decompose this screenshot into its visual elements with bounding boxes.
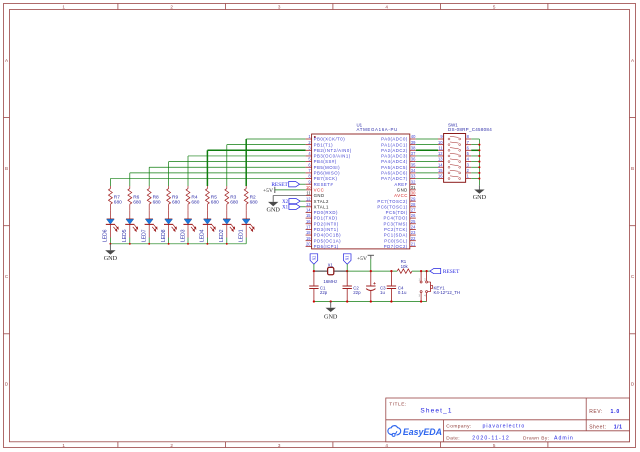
svg-text:PB6(MISO): PB6(MISO) — [314, 171, 341, 176]
wire PA6 to SW1 — [416, 172, 438, 174]
pin 4 PB3(OC0/AIN1) — [306, 151, 351, 159]
IC U1 ATMEGA16A-PU body — [312, 122, 410, 248]
svg-text:Company:: Company: — [446, 423, 471, 429]
pin 31 GND — [397, 185, 416, 193]
junction on rail col 6 — [206, 243, 208, 245]
SW1 element row 1 pins 9/8 — [438, 134, 471, 140]
net flag X1 (pin 13 XTAL1) — [282, 204, 305, 210]
resistor R3 680 — [225, 186, 239, 210]
svg-text:RESET#: RESET# — [314, 182, 334, 187]
svg-text:Sheet:: Sheet: — [589, 425, 606, 431]
svg-text:PB2(INT2/AIN0): PB2(INT2/AIN0) — [314, 148, 352, 153]
junction on rail col 4 — [168, 243, 170, 245]
wire LED ground rail — [110, 243, 246, 245]
junction C4 top — [390, 270, 392, 272]
pin 28 PC6(TOSC1) — [377, 202, 416, 210]
svg-text:25: 25 — [411, 219, 416, 224]
svg-text:13: 13 — [306, 202, 311, 207]
svg-text:14: 14 — [438, 162, 443, 167]
svg-text:27: 27 — [411, 208, 416, 213]
svg-text:12: 12 — [306, 196, 311, 201]
push button KEY1 K4-12*12_TH — [418, 271, 460, 301]
svg-text:34: 34 — [411, 168, 416, 173]
pin 12 XTAL2 — [306, 196, 329, 204]
svg-text:Sheet_1: Sheet_1 — [420, 408, 452, 415]
LED LED2 — [219, 210, 235, 242]
svg-text:22p: 22p — [320, 290, 328, 295]
ground (SW1 rail) — [473, 185, 487, 201]
svg-text:X1: X1 — [282, 206, 288, 211]
pin 6 PB5(MOSI) — [306, 162, 341, 170]
svg-text:26: 26 — [411, 213, 416, 218]
svg-text:PA5(ADC5): PA5(ADC5) — [381, 165, 408, 170]
svg-text:PC1(SDA): PC1(SDA) — [384, 233, 408, 238]
pin 40 PA0(ADC0) — [381, 134, 416, 142]
svg-text:21: 21 — [411, 241, 416, 246]
svg-text:PB7(SCK): PB7(SCK) — [314, 176, 338, 181]
svg-text:1: 1 — [62, 5, 65, 10]
wire SW1 row 3 to gnd rail — [471, 149, 479, 151]
wire bottom gnd rail (osc) — [314, 301, 427, 303]
svg-text:38: 38 — [411, 145, 416, 150]
svg-text:36: 36 — [411, 157, 416, 162]
svg-text:1.0: 1.0 — [611, 409, 621, 415]
capacitor C1 22p — [309, 271, 328, 301]
wire PA1 to SW1 — [416, 144, 438, 146]
SW1 element row 2 pins 10/7 — [438, 140, 471, 146]
pin 17 PD3(INT1) — [306, 225, 339, 233]
switch SW1 DS-08RP_C458084 body — [444, 122, 493, 182]
company row — [446, 423, 525, 429]
svg-text:+5V: +5V — [263, 188, 273, 194]
svg-text:PC3(TMS): PC3(TMS) — [384, 221, 408, 226]
junction on rail col 7 — [226, 243, 228, 245]
pin 37 PA3(ADC3) — [381, 151, 416, 159]
svg-text:18: 18 — [306, 230, 311, 235]
power +5V (osc) — [357, 255, 374, 271]
svg-text:EasyEDA: EasyEDA — [403, 427, 442, 437]
svg-text:1u: 1u — [380, 290, 385, 295]
SW1 element row 4 pins 12/5 — [438, 151, 471, 157]
pin 1 PB0(XCK/T0) — [306, 134, 346, 142]
wire net R2 to PB0 — [246, 139, 305, 186]
svg-text:LED1: LED1 — [239, 229, 245, 242]
svg-text:PA2(ADC2): PA2(ADC2) — [381, 148, 408, 153]
junction on rail col 3 — [148, 243, 150, 245]
svg-text:680: 680 — [191, 200, 199, 206]
svg-text:XTAL1: XTAL1 — [314, 204, 329, 209]
svg-text:LED7: LED7 — [142, 229, 148, 242]
svg-text:+5V: +5V — [357, 256, 367, 262]
junction on rail col 2 — [129, 243, 131, 245]
svg-text:PB1(T1): PB1(T1) — [314, 142, 334, 147]
svg-text:TITLE:: TITLE: — [389, 401, 407, 407]
svg-text:LED5: LED5 — [122, 229, 128, 242]
LED LED1 — [239, 210, 255, 242]
svg-text:35: 35 — [411, 162, 416, 167]
svg-text:3: 3 — [278, 443, 281, 448]
svg-text:X2: X2 — [312, 256, 316, 261]
svg-text:23: 23 — [411, 230, 416, 235]
svg-text:10: 10 — [306, 185, 311, 190]
junction bottom rail — [330, 300, 332, 302]
resistor R4 680 — [186, 186, 200, 210]
junction bottom rail — [420, 300, 422, 302]
svg-text:13: 13 — [438, 157, 443, 162]
LED LED8 — [161, 210, 177, 242]
LED LED3 — [180, 210, 196, 242]
pin 22 PC0(SCL) — [384, 236, 416, 244]
junction SW rail row 7 — [478, 172, 480, 174]
svg-text:PB5(MOSI): PB5(MOSI) — [314, 165, 341, 170]
svg-text:12: 12 — [438, 151, 443, 156]
junction bottom rail — [313, 300, 315, 302]
svg-text:PB0(XCK/T0): PB0(XCK/T0) — [314, 137, 346, 142]
junction SW rail row 3 — [478, 149, 480, 151]
svg-text:GND: GND — [104, 255, 118, 262]
svg-text:680: 680 — [211, 200, 219, 206]
svg-text:ATMEGA16A-PU: ATMEGA16A-PU — [357, 127, 398, 132]
resistor R9 680 — [167, 186, 181, 210]
svg-text:PC6(TOSC1): PC6(TOSC1) — [377, 204, 408, 209]
svg-text:PD7(OC2): PD7(OC2) — [384, 244, 408, 249]
svg-text:11: 11 — [438, 145, 443, 150]
pin 3 PB2(INT2/AIN0) — [306, 145, 352, 153]
LED LED5 — [122, 210, 138, 242]
svg-text:Admin: Admin — [554, 435, 574, 441]
wire LED5 to gnd rail — [129, 238, 131, 244]
svg-text:RESET: RESET — [271, 182, 288, 188]
svg-text:X1: X1 — [328, 263, 334, 268]
svg-text:X2: X2 — [282, 200, 288, 205]
pin 10 VCC — [306, 185, 325, 193]
wire SW1 row 5 to gnd rail — [471, 161, 479, 163]
pin 24 PC2(TCK) — [384, 225, 416, 233]
pin 26 PC4(TDO) — [384, 213, 417, 221]
crystal X1 16MHz — [314, 263, 347, 284]
pin 15 PD1(TXD) — [306, 213, 338, 221]
wire PA5 to SW1 — [416, 166, 438, 168]
svg-text:PA0(ADC0): PA0(ADC0) — [381, 137, 408, 142]
wire SW1 gnd rail — [478, 139, 480, 185]
svg-text:14: 14 — [306, 208, 311, 213]
EasyEDA logo — [388, 426, 442, 438]
svg-text:PA3(ADC3): PA3(ADC3) — [381, 154, 408, 159]
wire PA0 to SW1 — [416, 138, 438, 140]
svg-text:2: 2 — [170, 5, 173, 10]
junction bottom rail — [390, 300, 392, 302]
wire PA4 to SW1 — [416, 161, 438, 163]
svg-text:29: 29 — [411, 196, 416, 201]
svg-text:4: 4 — [385, 443, 388, 448]
svg-text:2020-11-12: 2020-11-12 — [472, 435, 510, 441]
net flag X1 (crystal right) — [343, 254, 351, 271]
svg-text:GND: GND — [266, 206, 280, 213]
pin 9 RESET# — [306, 179, 334, 187]
svg-text:680: 680 — [114, 200, 122, 206]
svg-text:37: 37 — [411, 151, 416, 156]
net flag X2 (pin 12 XTAL2) — [282, 199, 305, 205]
svg-text:GND: GND — [473, 194, 487, 201]
svg-text:PA7(ADC7): PA7(ADC7) — [381, 176, 408, 181]
svg-text:GND: GND — [314, 193, 325, 198]
wire LED8 to gnd rail — [168, 238, 170, 244]
svg-text:PA4(ADC4): PA4(ADC4) — [381, 159, 408, 164]
svg-text:10: 10 — [438, 140, 443, 145]
junction SW rail row 6 — [478, 166, 480, 168]
svg-text:22p: 22p — [353, 290, 361, 295]
svg-text:5: 5 — [493, 443, 496, 448]
net flag X2 (crystal left) — [310, 254, 318, 271]
wire net R4 to PB3 — [188, 156, 306, 186]
junction SW rail row 8 — [478, 178, 480, 180]
pin 23 PC1(SDA) — [384, 230, 416, 238]
svg-text:GND: GND — [397, 187, 408, 192]
junction bottom rail — [346, 300, 348, 302]
pin 21 PD7(OC2) — [384, 241, 416, 249]
pin 38 PA2(ADC2) — [381, 145, 416, 153]
pin 30 AVCC — [394, 191, 416, 199]
junction crystal left — [313, 270, 315, 272]
svg-text:Date:: Date: — [446, 435, 460, 441]
svg-text:PC7(TOSC2): PC7(TOSC2) — [377, 199, 408, 204]
svg-text:33: 33 — [411, 174, 416, 179]
wire SW1 row 6 to gnd rail — [471, 166, 479, 168]
ground (pin 11) — [266, 196, 305, 214]
pin 11 GND — [306, 191, 325, 199]
resistor R5 680 — [206, 186, 220, 210]
svg-text:piavarelectro: piavarelectro — [483, 423, 526, 429]
wire net R6 to PB6 — [130, 173, 306, 186]
svg-text:PC0(SCL): PC0(SCL) — [384, 238, 408, 243]
SW1 element row 3 pins 11/6 — [438, 145, 471, 151]
svg-text:PD4(OC1B): PD4(OC1B) — [314, 233, 341, 238]
LED LED4 — [200, 210, 216, 242]
pin 32 AREF — [394, 179, 416, 187]
date row — [446, 435, 573, 441]
svg-text:11: 11 — [306, 191, 311, 196]
resistor R1 10k — [397, 259, 412, 273]
wire SW1 row 2 to gnd rail — [471, 144, 479, 146]
svg-text:PD0(RXD): PD0(RXD) — [314, 210, 338, 215]
pin 18 PD4(OC1B) — [306, 230, 341, 238]
svg-text:1/1: 1/1 — [614, 425, 623, 431]
wire net R8 to PB5 — [149, 167, 305, 186]
wire R1 to RESET — [412, 270, 430, 272]
junction KEY1 pin2 — [425, 270, 427, 272]
net flag RESET (key) — [430, 269, 460, 276]
capacitor C4 0.1u — [387, 271, 407, 301]
svg-text:39: 39 — [411, 140, 416, 145]
junction crystal right — [346, 270, 348, 272]
svg-text:10k: 10k — [401, 264, 409, 269]
junction SW rail row 5 — [478, 161, 480, 163]
svg-text:PA6(ADC6): PA6(ADC6) — [381, 171, 408, 176]
SW1 element row 5 pins 13/4 — [438, 157, 471, 163]
capacitor C2 22p — [343, 271, 362, 301]
svg-text:PC4(TDO): PC4(TDO) — [384, 216, 408, 221]
wire LED7 to gnd rail — [148, 238, 150, 244]
svg-text:31: 31 — [411, 185, 416, 190]
svg-text:17: 17 — [306, 225, 311, 230]
rev cell — [589, 409, 620, 415]
svg-text:DS-08RP_C458084: DS-08RP_C458084 — [448, 127, 492, 132]
wire net R5 to PB2 — [207, 150, 305, 186]
svg-text:PC5(TDI): PC5(TDI) — [386, 210, 408, 215]
wire crystal net to +5V node — [347, 270, 397, 272]
resistor R8 680 — [147, 186, 161, 210]
resistor R7 680 — [109, 186, 123, 210]
net flag RESET (pin 9) — [271, 182, 305, 189]
svg-text:PD5(OC1A): PD5(OC1A) — [314, 238, 341, 243]
svg-text:16: 16 — [438, 174, 443, 179]
pin 33 PA7(ADC7) — [381, 174, 416, 182]
svg-text:PB4(SS#): PB4(SS#) — [314, 159, 337, 164]
svg-text:LED6: LED6 — [103, 229, 109, 242]
wire net R9 to PB4 — [169, 162, 306, 186]
wire PA2 to SW1 — [416, 149, 438, 151]
wire LED3 to gnd rail — [187, 238, 189, 244]
svg-text:28: 28 — [411, 202, 416, 207]
wire SW1 row 1 to gnd rail — [471, 138, 479, 140]
wire SW1 row 4 to gnd rail — [471, 155, 479, 157]
junction KEY1 pin1 — [420, 270, 422, 272]
svg-text:22: 22 — [411, 236, 416, 241]
svg-text:B: B — [5, 166, 8, 171]
svg-text:680: 680 — [230, 200, 238, 206]
svg-text:24: 24 — [411, 225, 416, 230]
capacitor C3 1u polarized — [366, 271, 386, 301]
svg-text:Drawn By:: Drawn By: — [523, 435, 550, 441]
pin 8 PB7(SCK) — [306, 174, 338, 182]
svg-text:X1: X1 — [346, 256, 350, 261]
pin 20 PD6(ICP1) — [306, 241, 339, 249]
svg-text:XTAL2: XTAL2 — [314, 199, 329, 204]
pin 14 PD0(RXD) — [306, 208, 338, 216]
svg-text:K4-12*12_TH: K4-12*12_TH — [434, 290, 461, 295]
svg-text:32: 32 — [411, 179, 416, 184]
junction on rail col 5 — [187, 243, 189, 245]
svg-text:19: 19 — [306, 236, 311, 241]
pin 35 PA5(ADC5) — [381, 162, 416, 170]
wire LED1 to gnd rail — [245, 238, 247, 244]
svg-text:AREF: AREF — [394, 182, 407, 187]
SW1 element row 8 pins 16/1 — [438, 174, 471, 180]
svg-text:15: 15 — [306, 213, 311, 218]
pin 34 PA6(ADC6) — [381, 168, 416, 176]
svg-text:3: 3 — [278, 5, 281, 10]
power +5V (pin 10 VCC) — [263, 187, 306, 194]
svg-text:1: 1 — [62, 443, 65, 448]
wire net R7 to PB7 — [110, 179, 305, 186]
pin 36 PA4(ADC4) — [381, 157, 416, 165]
wire LED4 to gnd rail — [206, 238, 208, 244]
svg-text:PD6(ICP1): PD6(ICP1) — [314, 244, 339, 249]
junction on rail col 1 — [109, 243, 111, 245]
pin 16 PD2(INT0) — [306, 219, 339, 227]
svg-text:20: 20 — [306, 241, 311, 246]
resistor R6 680 — [128, 186, 142, 210]
pin 39 PA1(ADC1) — [381, 140, 416, 148]
svg-text:30: 30 — [411, 191, 416, 196]
svg-text:16: 16 — [306, 219, 311, 224]
pin 5 PB4(SS#) — [306, 157, 337, 165]
pin 27 PC5(TDI) — [386, 208, 416, 216]
svg-text:PD2(INT0): PD2(INT0) — [314, 221, 339, 226]
pin 29 PC7(TOSC2) — [377, 196, 416, 204]
svg-text:5: 5 — [493, 5, 496, 10]
SW1 element row 7 pins 15/2 — [438, 168, 471, 174]
svg-text:PA1(ADC1): PA1(ADC1) — [381, 142, 408, 147]
svg-text:PC2(TCK): PC2(TCK) — [384, 227, 408, 232]
svg-text:RESET: RESET — [443, 269, 460, 275]
LED LED7 — [142, 210, 158, 242]
wire net R3 to PB1 — [227, 145, 306, 186]
sheet cell — [589, 425, 622, 431]
resistor R2 680 — [244, 186, 258, 210]
svg-text:VCC: VCC — [314, 187, 325, 192]
wire PA3 to SW1 — [416, 155, 438, 157]
wire SW1 row 8 to gnd rail — [471, 178, 479, 180]
svg-text:680: 680 — [172, 200, 180, 206]
pin 13 XTAL1 — [306, 202, 329, 210]
junction bottom rail — [370, 300, 372, 302]
junction SW rail row 4 — [478, 155, 480, 157]
junction +5V/C3 — [370, 270, 372, 272]
pin 25 PC3(TMS) — [384, 219, 417, 227]
pin 2 PB1(T1) — [306, 140, 334, 148]
svg-text:15: 15 — [438, 168, 443, 173]
SW1 element row 6 pins 14/3 — [438, 162, 471, 168]
svg-text:0.1u: 0.1u — [398, 290, 407, 295]
wire SW1 row 7 to gnd rail — [471, 172, 479, 174]
svg-text:4: 4 — [385, 5, 388, 10]
ground (osc rail) — [324, 302, 338, 321]
svg-text:PD3(INT1): PD3(INT1) — [314, 227, 339, 232]
svg-text:680: 680 — [250, 200, 258, 206]
ground (LED rail) — [104, 244, 118, 262]
pin 7 PB6(MISO) — [306, 168, 341, 176]
svg-text:PD1(TXD): PD1(TXD) — [314, 216, 338, 221]
pin 19 PD5(OC1A) — [306, 236, 341, 244]
svg-text:680: 680 — [153, 200, 161, 206]
svg-text:GND: GND — [324, 314, 338, 321]
svg-text:LED8: LED8 — [161, 229, 167, 242]
junction SW rail row 2 — [478, 144, 480, 146]
LED LED6 — [103, 210, 119, 242]
svg-text:16MHz: 16MHz — [323, 279, 337, 284]
svg-text:2: 2 — [170, 443, 173, 448]
svg-text:LED4: LED4 — [200, 229, 206, 242]
svg-text:LED2: LED2 — [219, 229, 225, 242]
svg-text:680: 680 — [133, 200, 141, 206]
svg-text:LED3: LED3 — [180, 229, 186, 242]
svg-text:PB3(OC0/AIN1): PB3(OC0/AIN1) — [314, 154, 351, 159]
title block — [386, 398, 630, 442]
svg-text:AVCC: AVCC — [394, 193, 408, 198]
wire LED6 to gnd rail — [109, 238, 111, 244]
title text — [389, 401, 452, 414]
svg-text:40: 40 — [411, 134, 416, 139]
wire LED2 to gnd rail — [226, 238, 228, 244]
svg-text:B: B — [631, 166, 634, 171]
svg-text:REV:: REV: — [589, 409, 603, 415]
wire PA7 to SW1 — [416, 178, 438, 180]
